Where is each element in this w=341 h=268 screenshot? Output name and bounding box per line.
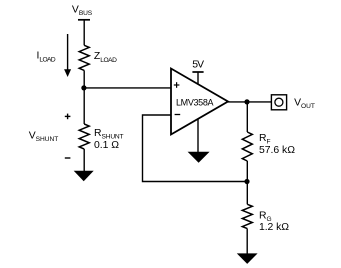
resistor RF xyxy=(242,132,252,161)
svg-text:VBUS: VBUS xyxy=(72,5,93,17)
svg-text:RG: RG xyxy=(259,211,272,224)
svg-text:5V: 5V xyxy=(192,59,204,70)
node output junction xyxy=(244,99,249,104)
wire RF to RG xyxy=(246,161,248,204)
svg-text:ZLOAD: ZLOAD xyxy=(94,51,117,64)
wire op-amp ground stub xyxy=(197,119,199,153)
op-amp + input marker xyxy=(174,82,180,88)
svg-text:RSHUNT: RSHUNT xyxy=(94,128,124,141)
VBUS supply terminal xyxy=(78,20,90,46)
label - polarity xyxy=(65,157,71,159)
5V supply terminal xyxy=(192,72,203,85)
wire to +input xyxy=(84,87,170,89)
wire output node to RF xyxy=(246,102,248,132)
resistor RG xyxy=(242,204,252,228)
svg-text:1.2 kΩ: 1.2 kΩ xyxy=(259,222,289,233)
op-amp U1 triangle xyxy=(171,69,228,135)
svg-text:ILOAD: ILOAD xyxy=(37,51,56,64)
wire output xyxy=(228,101,271,103)
op-amp - input marker xyxy=(175,114,181,116)
label + polarity xyxy=(65,114,71,120)
resistor ZLOAD xyxy=(79,45,89,70)
output terminal VOUT xyxy=(271,95,286,110)
svg-text:VSHUNT: VSHUNT xyxy=(29,131,59,144)
wire RSHUNT to ground xyxy=(83,149,85,171)
ground xyxy=(237,253,258,264)
current arrow ILOAD xyxy=(64,34,71,77)
junction node xyxy=(81,85,86,90)
wire ZLOAD to RSHUNT xyxy=(83,70,85,124)
svg-text:0.1 Ω: 0.1 Ω xyxy=(94,140,119,151)
svg-text:LMV358A: LMV358A xyxy=(176,97,214,107)
svg-text:RF: RF xyxy=(259,133,271,146)
ground xyxy=(188,152,210,163)
wire RG to ground xyxy=(246,229,248,254)
svg-text:VOUT: VOUT xyxy=(294,97,315,110)
wire feedback xyxy=(143,115,248,182)
node feedback junction xyxy=(244,179,249,184)
svg-text:57.6 kΩ: 57.6 kΩ xyxy=(259,145,295,156)
resistor RSHUNT xyxy=(79,124,89,149)
ground xyxy=(74,171,94,182)
